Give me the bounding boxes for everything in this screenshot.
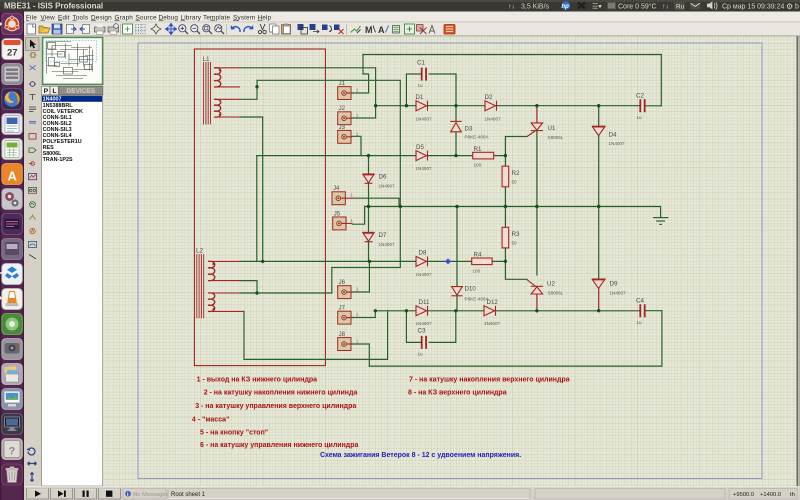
wire J3 riser — [352, 136, 361, 155]
purple kb — [2, 214, 23, 235]
wire tools — [351, 26, 361, 33]
wire J7 riser — [352, 311, 375, 318]
archive grey — [2, 64, 23, 85]
connector J6 — [338, 280, 359, 299]
thyristor U1 — [527, 123, 543, 137]
svg-text:1N4007: 1N4007 — [379, 184, 396, 189]
junction node (457,206.5) — [455, 205, 458, 208]
svg-text:D2: D2 — [485, 94, 493, 101]
junction node (505.4,261.3) — [504, 260, 507, 263]
print pair — [95, 24, 106, 34]
ubuntu — [2, 14, 23, 35]
junction node (536.9,105.7) — [535, 104, 538, 107]
svg-text:1u: 1u — [637, 115, 643, 120]
svg-text:CONN-SIL4: CONN-SIL4 — [43, 133, 72, 139]
svg-text:TRAN-1P2S: TRAN-1P2S — [43, 157, 73, 163]
svg-text:D6: D6 — [379, 174, 387, 181]
svg-text:D3: D3 — [465, 125, 473, 132]
svg-text:D7: D7 — [379, 232, 387, 239]
diode D2 — [485, 101, 497, 111]
wire D10 column — [456, 207, 458, 311]
orange A — [2, 164, 23, 185]
wire J2 riser — [352, 106, 375, 118]
svg-text:P: P — [44, 88, 49, 95]
wire D5-R1 line — [257, 155, 506, 157]
junction node (257,293) — [255, 291, 258, 294]
wire L1 centre tap vertical — [240, 87, 257, 100]
svg-text:M: M — [365, 25, 373, 35]
diode D9 — [592, 279, 606, 288]
wire D6 D7 column — [368, 156, 370, 262]
svg-text:4 - "масса": 4 - "масса" — [192, 416, 230, 423]
svg-text:⚙: ⚙ — [786, 2, 793, 11]
svg-text:J7: J7 — [339, 306, 346, 312]
sep — [120, 24, 122, 35]
calendar 27 — [2, 39, 23, 60]
svg-text:RES: RES — [43, 145, 54, 151]
camera grey — [2, 339, 23, 360]
svg-text:1 - выход на КЗ нижнего цилинд: 1 - выход на КЗ нижнего цилиндра — [197, 377, 318, 384]
sep — [444, 25, 455, 35]
diode D11 — [416, 306, 428, 316]
junction node (505.4,206.5) — [504, 205, 507, 208]
svg-text:Ср мар 15 09:39:24: Ср мар 15 09:39:24 — [722, 3, 785, 10]
svg-text:↑↓: ↑↓ — [662, 3, 669, 10]
svg-text:D12: D12 — [487, 299, 499, 306]
svg-text:100: 100 — [473, 268, 481, 273]
wire U1 gate — [505, 137, 527, 156]
svg-text:J5: J5 — [334, 211, 341, 217]
junction node (369.4,261.4) — [368, 260, 371, 263]
selection arrow (active) — [26, 38, 40, 51]
svg-text:1N4007: 1N4007 — [416, 116, 433, 121]
junction node (406.4,310.8) — [405, 309, 408, 312]
transformer L2 — [197, 254, 244, 318]
svg-text:D5: D5 — [416, 144, 424, 151]
svg-text:2 - на катушку накопления нижн: 2 - на катушку накопления нижнего цилинд… — [204, 390, 358, 397]
wire D4 column — [598, 106, 600, 207]
wire U2 anode — [536, 294, 538, 311]
connector J8 — [338, 332, 359, 351]
resistor R3 — [502, 227, 509, 248]
svg-text:1N4007: 1N4007 — [43, 97, 62, 103]
bottom rotate/mirror — [27, 448, 37, 482]
svg-text:1N4007: 1N4007 — [484, 321, 501, 326]
diode D6 — [362, 174, 374, 183]
wire J4 to mass rail — [354, 198, 399, 206]
svg-text:100: 100 — [474, 163, 482, 168]
wire U2 gate — [505, 261, 527, 279]
svg-text:7 - на катушку накопления верх: 7 - на катушку накопления верхнего цилин… — [409, 377, 570, 384]
wire R2 leads — [504, 156, 506, 207]
svg-text:J3: J3 — [339, 125, 346, 131]
svg-text:1N4007: 1N4007 — [609, 141, 626, 146]
svg-text:MBE31 - ISIS Professional: MBE31 - ISIS Professional — [4, 2, 103, 11]
junction node (455.8,310.8) — [454, 309, 457, 312]
svg-text:Core 0 59°C: Core 0 59°C — [618, 2, 657, 10]
wire mass middle line — [365, 206, 655, 208]
wire J5 riser — [352, 207, 364, 225]
right panels — [535, 489, 725, 500]
wire D3 column — [455, 106, 457, 156]
wire L1 upper coil top to D1 line — [240, 68, 376, 106]
node marker on D8 line — [445, 258, 451, 264]
svg-text:D10: D10 — [465, 286, 477, 293]
wire mass rail from L1 centre tap — [257, 80, 400, 293]
svg-text:C1: C1 — [417, 60, 425, 67]
svg-text:1u: 1u — [418, 351, 424, 356]
svg-text:+9500.0: +9500.0 — [733, 492, 754, 498]
junction node (456,105.7) — [454, 104, 457, 107]
border rectangle around transformers — [194, 49, 325, 366]
svg-text:J8: J8 — [339, 332, 346, 338]
junction node (400.3,206.5) — [399, 205, 402, 208]
gears — [2, 189, 23, 210]
svg-text:50: 50 — [512, 241, 518, 246]
capacitor C3 — [422, 336, 426, 349]
wire L1 lower coil bottom to D8 line — [240, 117, 263, 261]
svg-text:C3: C3 — [418, 328, 426, 335]
refresh / grid — [123, 24, 133, 34]
diode D8 — [416, 256, 428, 266]
svg-text:1N4007: 1N4007 — [379, 242, 396, 247]
svg-text:COIL VETEROK: COIL VETEROK — [43, 109, 83, 115]
diode D4 — [592, 126, 606, 135]
wire C3 right lead branch — [429, 311, 456, 343]
junction node (598.7,105.7) — [597, 104, 600, 107]
svg-text:J2: J2 — [339, 106, 346, 112]
svg-text:Ru: Ru — [676, 3, 685, 10]
junction node (456,155.6) — [454, 154, 457, 157]
message area — [123, 489, 166, 500]
sep — [226, 24, 228, 35]
P / L buttons + DEVICES — [42, 86, 103, 95]
svg-text:L2: L2 — [196, 248, 204, 255]
svg-text:1N4007: 1N4007 — [610, 291, 627, 296]
svg-text:3 - на катушку управления верх: 3 - на катушку управления верхнего цилин… — [195, 403, 356, 410]
wire C1 left lead branch — [406, 74, 420, 106]
svg-text:R3: R3 — [512, 231, 520, 238]
svg-text:6 - на катушку управления нижн: 6 - на катушку управления нижнего цилинд… — [200, 442, 359, 449]
svg-text:Root sheet 1: Root sheet 1 — [171, 492, 206, 498]
wire C3 left lead branch — [406, 311, 420, 343]
trash — [2, 464, 23, 485]
calc — [2, 139, 23, 160]
vlc — [2, 289, 23, 310]
junction dots — [255, 85, 600, 312]
wire J6 riser — [352, 261, 369, 292]
cut/copy/paste — [258, 24, 266, 34]
svg-text:D8: D8 — [419, 250, 427, 257]
wire top rail down to C2 — [660, 55, 662, 106]
svg-text:1u: 1u — [637, 320, 643, 325]
connector J4 — [332, 186, 354, 205]
svg-text:D1: D1 — [416, 94, 424, 101]
green — [2, 314, 23, 335]
root sheet — [168, 489, 530, 500]
monitor — [2, 414, 23, 435]
svg-text:1u: 1u — [418, 83, 424, 88]
wire U1 cathode — [536, 131, 538, 207]
svg-text:3,5 KiB/s: 3,5 KiB/s — [521, 3, 550, 10]
diode D5 — [416, 151, 428, 161]
wire U2 cathode — [536, 207, 538, 275]
junction node (598.7,310.7) — [597, 309, 600, 312]
svg-text:D11: D11 — [419, 299, 430, 306]
svg-text:A: A — [378, 25, 385, 35]
capacitor C1 — [422, 68, 426, 81]
svg-text:A: A — [8, 169, 18, 184]
svg-text:CONN-SIL2: CONN-SIL2 — [43, 121, 72, 127]
play controls — [27, 489, 121, 500]
svg-text:J1: J1 — [339, 81, 346, 87]
right window edge — [797, 36, 799, 487]
ground — [654, 207, 668, 225]
svg-text:P6KE-400A: P6KE-400A — [465, 135, 490, 140]
minimap — [43, 37, 103, 84]
svg-text:50: 50 — [512, 179, 518, 184]
grey-purple app — [2, 239, 23, 260]
junction node (257,86.8) — [255, 85, 258, 88]
svg-text:b: b — [795, 3, 799, 10]
svg-text:5 - на кнопку "стоп": 5 - на кнопку "стоп" — [200, 430, 268, 437]
svg-text:J4: J4 — [333, 186, 340, 192]
wire D5 line left branch down — [256, 156, 258, 262]
pan + zooms — [166, 24, 177, 35]
svg-text:th: th — [790, 492, 795, 498]
diode D1 — [416, 101, 428, 111]
photos — [2, 389, 23, 410]
connector J3 — [338, 125, 359, 143]
resistor R2 — [502, 166, 509, 187]
capacitor C4 — [640, 304, 644, 317]
junction node (536.9,310.8) — [535, 309, 538, 312]
svg-text:8 - на КЗ верхнего цилиндра: 8 - на КЗ верхнего цилиндра — [408, 390, 507, 397]
wire D9 column — [598, 207, 600, 279]
capacitor C2 — [640, 99, 644, 112]
junction node (536.9,206.5) — [535, 205, 538, 208]
wire R3 leads — [504, 207, 506, 262]
svg-text:S8006L: S8006L — [548, 291, 564, 296]
junction node (368.5,206.5) — [367, 205, 370, 208]
junction node (505.4,155.6) — [504, 154, 507, 157]
writer — [2, 114, 23, 135]
wire top rail — [363, 54, 661, 56]
svg-text:1N4007: 1N4007 — [416, 166, 433, 171]
question box — [2, 439, 23, 460]
device ops — [393, 26, 400, 34]
device list — [42, 95, 103, 486]
junction node (598.7,206.5) — [597, 205, 600, 208]
diode D10 — [451, 287, 462, 296]
svg-text:C4: C4 — [636, 297, 644, 304]
annotation text lines — [192, 377, 570, 449]
diode D12 — [484, 306, 496, 316]
wire D1-D2-C2 line — [376, 105, 662, 107]
running markers — [0, 22, 3, 26]
wire C1 right lead branch — [429, 74, 456, 106]
svg-text:DEVICES: DEVICES — [66, 88, 96, 95]
wire L2 lower coil bottom detour — [244, 311, 388, 360]
svg-text:27: 27 — [7, 48, 18, 59]
transformer L1 — [204, 62, 240, 125]
svg-text:1N4007: 1N4007 — [485, 116, 502, 121]
svg-text:R2: R2 — [512, 170, 520, 177]
wire J8 riser — [352, 344, 369, 366]
svg-text:C2: C2 — [636, 92, 644, 99]
svg-text:D4: D4 — [609, 131, 617, 138]
junction node (375.3,310.8) — [374, 309, 377, 312]
svg-text:J6: J6 — [339, 280, 346, 286]
resistor R1 — [473, 152, 494, 159]
import / export — [67, 25, 77, 34]
junction node (368.5,155.6) — [367, 154, 370, 157]
origin — [151, 24, 161, 34]
svg-text:?: ? — [9, 446, 16, 458]
svg-text:↑↓: ↑↓ — [508, 3, 515, 10]
wire D8-R4 line — [240, 260, 505, 262]
wire D9 anode stem — [598, 288, 600, 311]
svg-text:U1: U1 — [548, 125, 556, 132]
svg-text:L1: L1 — [203, 56, 211, 63]
svg-text:1N4007: 1N4007 — [416, 321, 433, 326]
connector J1 — [338, 81, 359, 100]
diode D3 — [450, 121, 461, 131]
svg-text:S8006L: S8006L — [548, 135, 564, 140]
svg-text:☰▾: ☰▾ — [592, 3, 602, 10]
connector J2 — [338, 106, 359, 125]
wire bottom rail — [369, 365, 662, 367]
diode D7 — [362, 232, 374, 241]
resistor R4 — [472, 258, 492, 265]
dropbox — [2, 264, 23, 285]
svg-text:D9: D9 — [610, 281, 618, 288]
connector J5 — [333, 211, 354, 230]
svg-text:hp: hp — [562, 4, 570, 10]
wire L2 centre tap — [240, 281, 257, 293]
files stack — [2, 364, 23, 385]
wire U1 anode — [536, 106, 538, 123]
wire C4 right lead down — [661, 311, 663, 366]
svg-text:1N4007: 1N4007 — [416, 272, 433, 277]
thyristor U2 — [527, 280, 543, 294]
canvas area — [103, 36, 798, 487]
svg-text:Схема зажигания Ветерок 8 - 12: Схема зажигания Ветерок 8 - 12 с удвоени… — [320, 452, 521, 459]
wire D11-D12-C4 line — [375, 310, 662, 312]
junction node (406.4,105.7) — [405, 104, 408, 107]
connector J7 — [338, 306, 359, 325]
svg-text:U2: U2 — [547, 281, 555, 288]
sep — [346, 24, 348, 35]
svg-text:+1400.0: +1400.0 — [760, 492, 781, 498]
junction node (262.7,261.4) — [261, 260, 264, 263]
sheet border — [138, 43, 762, 478]
svg-text:L: L — [52, 88, 56, 95]
wire jog from top rail to J1 pin — [352, 55, 368, 94]
svg-text:Template: Template — [203, 14, 230, 21]
new / open / save — [27, 24, 36, 34]
block ops — [298, 24, 308, 34]
firefox — [2, 89, 23, 110]
svg-text:No Messages: No Messages — [133, 492, 169, 498]
svg-text:R1: R1 — [474, 146, 482, 153]
svg-text:R4: R4 — [474, 251, 482, 258]
junction node (375.6,105.7) — [374, 104, 377, 107]
undo / redo — [232, 26, 241, 32]
